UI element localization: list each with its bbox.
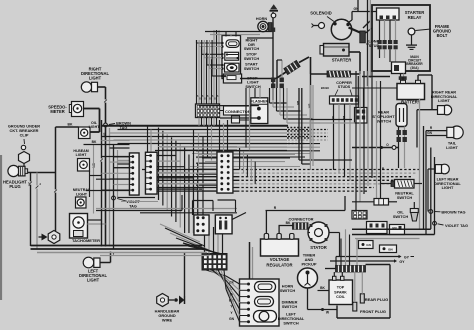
oil light — [79, 127, 91, 139]
wire ladder center elbows — [158, 128, 160, 201]
wires stop-light switch to flasher — [254, 88, 256, 98]
rear small box A — [359, 241, 374, 249]
left rear directional light — [440, 164, 450, 174]
terminal board connector — [217, 152, 233, 193]
tachometer — [70, 214, 88, 239]
wire mesh extra horizontals — [158, 146, 237, 148]
svg-text:BROWN TAG: BROWN TAG — [441, 210, 465, 215]
svg-text:GN: GN — [229, 317, 235, 321]
svg-text:CLIP: CLIP — [20, 132, 29, 137]
wire stator down — [339, 233, 341, 257]
svg-text:SWITCH: SWITCH — [280, 288, 296, 293]
svg-text:SWITCH: SWITCH — [282, 304, 298, 309]
wires into light switch top — [147, 126, 149, 153]
wire right column verticals — [355, 71, 357, 210]
wire dotted block center — [287, 127, 310, 129]
horn wire connector blocks — [276, 60, 278, 88]
svg-text:WIRE: WIRE — [162, 317, 173, 322]
accessory box 2 — [215, 215, 232, 234]
rear component box 2 — [390, 225, 405, 235]
svg-text:STARTER: STARTER — [332, 58, 351, 63]
wire lower mid horizontals — [190, 143, 320, 145]
left directional light — [83, 257, 94, 268]
svg-text:LIGHT: LIGHT — [446, 145, 458, 150]
wires from studs down — [333, 104, 335, 170]
svg-text:TOP: TOP — [337, 286, 345, 290]
svg-text:BK: BK — [342, 116, 346, 120]
brown tag (rear) — [429, 210, 433, 214]
wire bundle left-center verticals — [101, 120, 103, 247]
wires switch cluster to bundle — [197, 42, 223, 44]
wire break marks — [29, 181, 31, 184]
wire timer to coil — [307, 288, 309, 310]
wire ignition switch left pin horizontals — [102, 156, 130, 158]
connector (handlebar) — [196, 104, 220, 118]
right dir switch — [226, 40, 239, 48]
wire ladder horizontals from light switch — [155, 155, 176, 157]
wire GY upper — [336, 256, 399, 258]
svg-text:CONNECTOR: CONNECTOR — [225, 109, 251, 114]
svg-text:BK: BK — [92, 140, 97, 144]
wire horizontals to ignition switch — [84, 144, 130, 146]
svg-text:LIGHT: LIGHT — [89, 125, 101, 129]
wire speedometer — [84, 108, 100, 110]
stop switch — [225, 52, 239, 60]
wire tach stubs — [88, 219, 102, 221]
svg-text:LIGHT: LIGHT — [442, 185, 454, 190]
wire fan to left switch box — [206, 270, 226, 276]
wire stoplight column pair — [298, 88, 300, 160]
rear component box 1 — [367, 222, 388, 234]
wire plug loop — [389, 265, 391, 319]
copper bar (crimped section) — [327, 71, 351, 77]
svg-text:GY: GY — [399, 260, 405, 264]
wire right-directional to brown tag — [98, 86, 106, 88]
wire tail light verticals gray — [419, 99, 421, 230]
engine connector bar — [336, 266, 366, 273]
terminal board connector (top layer) — [217, 152, 233, 193]
svg-text:LIGHT: LIGHT — [438, 98, 450, 103]
svg-text:SPARK: SPARK — [334, 290, 347, 294]
starter — [324, 44, 350, 57]
wire long horizontals below boxes — [96, 208, 237, 210]
svg-text:B: B — [209, 98, 211, 101]
svg-text:B: B — [204, 98, 206, 101]
wires into terminal board top — [219, 120, 221, 155]
rear small box B — [380, 245, 397, 253]
svg-text:VOLTAGE: VOLTAGE — [270, 257, 290, 262]
wire solenoid to long stud — [349, 28, 361, 33]
svg-text:SOLENOID: SOLENOID — [310, 11, 331, 16]
wire below connector — [198, 118, 200, 126]
wire headlight plug — [28, 172, 56, 174]
svg-text:STUDS: STUDS — [338, 85, 351, 89]
hi-beam light — [78, 159, 90, 172]
svg-text:BK: BK — [320, 286, 325, 290]
left rear connector grid — [352, 211, 367, 220]
stator — [308, 222, 329, 243]
wire bundle into grid — [204, 235, 206, 254]
starter relay — [377, 8, 400, 20]
svg-text:SWITCH: SWITCH — [244, 46, 260, 51]
stop-light switch — [223, 74, 241, 83]
svg-text:BK: BK — [68, 122, 73, 126]
svg-text:LIGHT: LIGHT — [87, 277, 100, 282]
wire gray pair center — [309, 85, 311, 170]
wire BK to oil light — [56, 126, 79, 128]
wire routing above accessory boxes — [193, 200, 214, 202]
wire bottom trunk — [31, 245, 203, 247]
light switch connector — [146, 152, 158, 194]
svg-text:FRONT PLUG: FRONT PLUG — [360, 309, 386, 314]
svg-text:REAR PLUG: REAR PLUG — [365, 297, 389, 302]
svg-text:SWITCH: SWITCH — [376, 118, 392, 123]
brown tag (front) — [104, 123, 108, 127]
svg-text:BN BK: BN BK — [321, 86, 329, 90]
dimmer switch — [255, 297, 274, 307]
right handlebar switch housing — [222, 36, 241, 79]
svg-text:SWITCH: SWITCH — [283, 320, 299, 325]
wire diagonals into grid — [165, 228, 205, 246]
light switch connector (top layer) — [146, 152, 158, 194]
svg-text:B: B — [217, 95, 219, 98]
wire mesh fillers — [192, 153, 310, 155]
svg-text:STATOR: STATOR — [310, 245, 327, 250]
svg-text:PLUG: PLUG — [9, 184, 20, 189]
wire GY lower — [330, 260, 394, 262]
wire copper bar run — [310, 57, 312, 74]
svg-text:VIOLET TAG: VIOLET TAG — [445, 223, 468, 228]
wires below rear stoplight switch — [398, 127, 400, 169]
svg-text:PICKUP: PICKUP — [301, 261, 316, 266]
handlebar ground wire — [157, 294, 169, 307]
right rear directional light — [442, 105, 452, 115]
wires left of relay box — [367, 0, 369, 86]
solenoid — [331, 19, 351, 39]
accessory box with dots (top layer) — [194, 215, 209, 235]
wire elbows down to accessory boxes — [193, 130, 195, 216]
switch housing pins — [247, 283, 250, 286]
wire pair right of flasher — [245, 88, 247, 148]
neutral light — [76, 197, 87, 208]
svg-text:BK: BK — [286, 221, 291, 225]
svg-text:SWITCH: SWITCH — [245, 84, 261, 89]
horn — [258, 21, 268, 31]
wire harness band dashed — [142, 169, 237, 171]
svg-text:BN: BN — [388, 248, 392, 252]
accessory box with dots — [194, 215, 209, 235]
horn switch — [255, 282, 276, 293]
oil switch — [410, 209, 418, 213]
left handlebar switch housing — [240, 279, 280, 326]
wire horizontals terminal board left — [196, 157, 217, 159]
wires into engine bar — [340, 239, 342, 266]
left edge scan shadow — [0, 155, 2, 300]
frame ground bolt — [408, 28, 415, 35]
front plug — [353, 302, 357, 311]
wire junction O — [352, 147, 399, 149]
ignition switch connector (top layer) — [130, 153, 140, 195]
wire solenoid to relay slant — [363, 21, 370, 28]
svg-text:GN: GN — [366, 243, 371, 247]
violet tag (rear) — [433, 221, 437, 225]
copper studs strip — [330, 96, 359, 104]
wire bundle handlebar verticals — [196, 40, 198, 104]
svg-text:LIGHT: LIGHT — [89, 75, 102, 80]
wire regulator R — [265, 211, 267, 234]
stud pair component — [355, 108, 368, 124]
svg-text:(30A): (30A) — [410, 66, 418, 70]
svg-text:REGULATOR: REGULATOR — [266, 262, 292, 267]
frame bolt above horn — [272, 12, 274, 100]
svg-text:COIL: COIL — [336, 295, 346, 299]
svg-text:GY: GY — [404, 255, 410, 259]
wires down to left switch box pins — [249, 242, 251, 279]
svg-text:SWITCH: SWITCH — [244, 56, 260, 61]
speedometer — [72, 102, 84, 117]
wire rear tag verticals — [430, 148, 432, 230]
wire mid-band trunk — [102, 125, 289, 127]
svg-text:LIGHT: LIGHT — [76, 153, 88, 157]
svg-text:TAG: TAG — [129, 204, 137, 208]
svg-text:SWITCH: SWITCH — [393, 214, 409, 219]
long stud — [360, 31, 366, 43]
flasher — [251, 98, 268, 124]
svg-text:FLASHER: FLASHER — [250, 100, 268, 104]
svg-text:LIGHT: LIGHT — [76, 192, 88, 196]
svg-text:GN: GN — [331, 116, 335, 120]
svg-text:SWITCH: SWITCH — [397, 195, 413, 200]
wire left directional — [100, 262, 111, 264]
svg-text:HORN: HORN — [256, 17, 267, 21]
svg-text:BN: BN — [102, 133, 106, 138]
wire harness downturns — [239, 148, 241, 170]
right directional light — [81, 82, 91, 92]
wire regulator BK to connector — [278, 226, 280, 234]
start switch — [225, 63, 240, 72]
neutral switch — [395, 180, 415, 189]
main circuit breaker — [392, 62, 406, 74]
wires above cluster — [205, 31, 273, 33]
svg-text:TACHOMETER: TACHOMETER — [72, 238, 100, 243]
battery — [397, 84, 425, 100]
svg-text:B: B — [214, 98, 216, 101]
ground hexagon with arrow — [48, 231, 60, 244]
connector label box — [224, 106, 253, 115]
wire rear trunks — [352, 228, 431, 230]
top spark coil — [329, 280, 353, 305]
ignition switch connector — [130, 153, 140, 195]
wire ckt-breaker-clip vertical — [55, 127, 57, 231]
svg-text:B: B — [199, 98, 201, 101]
voltage regulator — [261, 239, 299, 256]
bottom connector grid — [202, 254, 227, 271]
timer and pickup — [298, 268, 318, 288]
svg-text:SWITCH: SWITCH — [244, 66, 260, 71]
left directional switch — [254, 311, 277, 323]
wire solenoid GN — [352, 11, 377, 13]
starter relay outline box — [372, 5, 430, 71]
junction box below connector — [232, 116, 240, 123]
connector row right — [374, 199, 389, 206]
wire bundle center-right — [269, 88, 271, 103]
booted plug (diagonal) — [284, 60, 300, 74]
accessory box 2 (top layer) — [215, 215, 232, 234]
wire right horizontals mid — [352, 87, 397, 89]
svg-text:RELAY: RELAY — [408, 15, 422, 20]
wires from relay down with connectors — [379, 20, 381, 40]
svg-text:CONNECTOR: CONNECTOR — [288, 216, 313, 221]
rear stoplight switch — [396, 104, 407, 127]
wire to booted plug — [240, 78, 276, 80]
svg-text:BOLT: BOLT — [437, 33, 448, 38]
svg-text:METER: METER — [50, 109, 64, 114]
wire starter right — [359, 52, 361, 74]
tail light — [450, 126, 463, 139]
headlight plug — [8, 165, 19, 176]
svg-text:GN: GN — [427, 131, 432, 135]
rear plug — [360, 294, 364, 303]
